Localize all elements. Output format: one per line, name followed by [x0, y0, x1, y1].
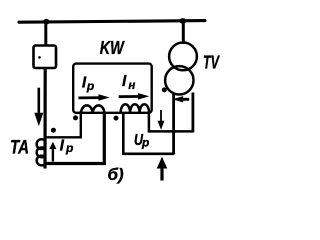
node: voltage coil polarity dot: [114, 116, 119, 121]
fuse box F1: [34, 46, 57, 69]
wire: TV secondary left lead down: [172, 93, 175, 155]
node: TV polarity dot: [162, 87, 167, 92]
arrow: Up voltage mark (up, below): [157, 157, 168, 181]
label In inside box: [122, 73, 135, 92]
svg-text:TA: TA: [10, 138, 29, 159]
wire: TA secondary bottom (thick) to current coil right terminal: [44, 112, 105, 164]
svg-text:б): б): [108, 165, 125, 184]
label Up: [134, 132, 149, 150]
node: TA polarity dot: [51, 128, 56, 133]
svg-text:KW: KW: [100, 38, 126, 58]
dot inside fuse box: [38, 56, 41, 59]
wire: top bus line: [19, 21, 205, 23]
svg-text:I: I: [60, 138, 65, 155]
wattmeter current coil (left, 2 humps): [81, 105, 104, 112]
label Ip near TA: [60, 138, 74, 155]
arrow: primary current (down): [34, 88, 43, 127]
wire: TV secondary right lead down: [191, 93, 194, 133]
arrow: Ip secondary current (up) with label: [49, 142, 56, 162]
arrow: In direction (right) inside box: [119, 93, 150, 100]
arrow: Up voltage mark (down): [158, 110, 165, 130]
current transformer TA winding: [37, 139, 45, 165]
wire: bus junction to fuse box: [44, 22, 47, 46]
node: bus junction right: [179, 18, 186, 24]
arrow: Ip direction (right) inside box: [78, 94, 109, 101]
svg-text:TV: TV: [203, 52, 220, 73]
wire: fuse box down through TA to bottom: [43, 68, 46, 169]
svg-text:р: р: [141, 135, 149, 149]
arrow: TV secondary current (left): [172, 96, 189, 102]
voltage transformer TV upper circle: [169, 43, 197, 71]
wire: TA secondary top to wattmeter current coil left terminal: [44, 111, 81, 137]
wattmeter voltage coil (right, 3 humps): [121, 104, 150, 113]
voltage transformer TV lower circle: [165, 66, 193, 94]
wattmeter KW box: [73, 64, 152, 113]
svg-text:н: н: [128, 80, 135, 92]
wire: voltage coil right terminal down and right to TV secondary: [149, 112, 193, 131]
svg-text:р: р: [86, 79, 94, 93]
node: current coil polarity dot: [73, 115, 78, 120]
svg-text:р: р: [65, 141, 73, 155]
wire: voltage coil left terminal down and right to TV secondary: [123, 112, 174, 154]
node: bus junction left: [43, 19, 50, 25]
wire: bus junction to TV primary: [182, 21, 185, 45]
label Ip inside box: [82, 74, 94, 93]
svg-text:I: I: [122, 73, 127, 90]
